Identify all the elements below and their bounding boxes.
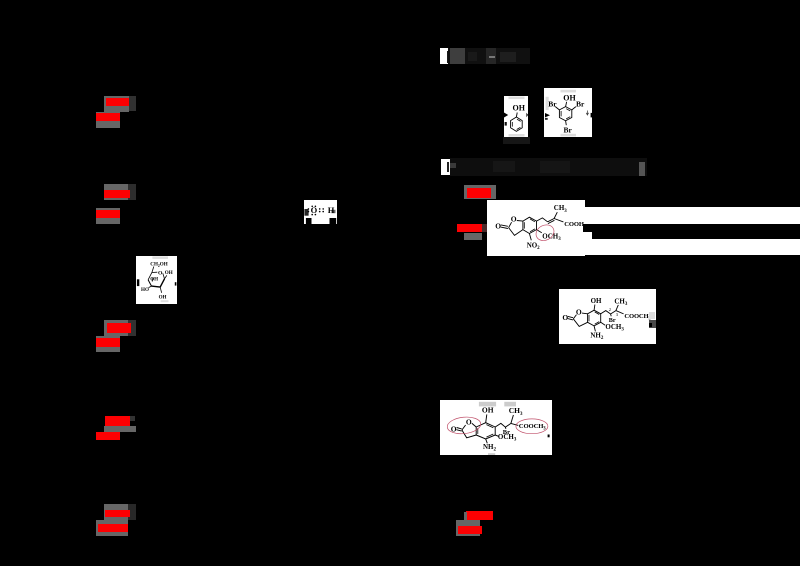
- structure A box: [487, 200, 585, 256]
- answer group 2 highlight line 2: [96, 208, 120, 224]
- heading 1 noise glyphs: [500, 52, 516, 62]
- svg-text:NO2: NO2: [526, 242, 539, 252]
- heading 2 glyph mark on white square: [447, 162, 450, 172]
- white band A: [585, 207, 800, 224]
- answer group 4 red text line 2: [96, 432, 120, 440]
- bottom answer highlight line 2: [456, 520, 480, 536]
- svg-text:3: 3: [616, 312, 619, 317]
- answer group 1 dark side block: [129, 96, 137, 111]
- red ellipse around OCH3: [533, 222, 556, 244]
- small black mark at right edge: [548, 434, 550, 437]
- question red text 1: [467, 188, 491, 198]
- svg-text:COOCH3: COOCH3: [519, 422, 547, 430]
- svg-text:COOH: COOH: [564, 221, 584, 228]
- svg-text:CH3: CH3: [553, 204, 566, 214]
- hydroxide Lewis text: [304, 200, 337, 225]
- svg-text:CH3: CH3: [615, 297, 628, 307]
- svg-text:OH: OH: [591, 297, 602, 305]
- svg-text:O: O: [563, 313, 569, 322]
- heading 2 gray square: [639, 162, 645, 176]
- answer group 2 red text line 2: [96, 210, 120, 218]
- answer group 2 red text line 1: [104, 190, 130, 198]
- heading 2 noise glyph 2: [540, 161, 570, 173]
- answer group 2 highlight line 1: [104, 184, 128, 200]
- answer group 3 red text line 2: [96, 338, 120, 347]
- structure B right dark square: [649, 320, 656, 327]
- svg-text:OCH3: OCH3: [542, 233, 561, 243]
- svg-text:OH: OH: [158, 295, 166, 301]
- svg-text:CH3: CH3: [509, 406, 523, 417]
- answer group 1 highlight line 1: [104, 96, 129, 112]
- phenol structure: [504, 96, 528, 137]
- svg-text:OH: OH: [482, 405, 494, 414]
- svg-text:O: O: [157, 271, 162, 277]
- svg-text:Br: Br: [563, 125, 572, 134]
- bottom answer red line 2: [458, 526, 482, 535]
- svg-text:Br: Br: [576, 99, 585, 108]
- svg-text:O: O: [510, 215, 516, 224]
- svg-text:O: O: [495, 222, 501, 231]
- svg-text:OCH3: OCH3: [606, 323, 625, 333]
- heading 1 noise glyph 2: [468, 52, 477, 61]
- NO2 bond: [529, 234, 531, 241]
- answer group 4 highlight strip: [104, 426, 136, 432]
- svg-text:OH: OH: [563, 93, 576, 102]
- side chain: [536, 218, 547, 222]
- answer group 1 red text line 2: [96, 113, 120, 121]
- structure B drawing: [559, 289, 656, 344]
- answer group 3 highlight line 2: [96, 336, 120, 352]
- svg-text:OH: OH: [164, 271, 172, 277]
- tribromophenol box: [544, 88, 593, 137]
- answer group 5 red text line 2: [98, 524, 128, 532]
- heading 1 dash: [489, 56, 495, 58]
- heading 2 white square: [441, 159, 450, 176]
- heading 1 gray block 2: [486, 48, 496, 64]
- red ellipse around lactone: [446, 415, 481, 435]
- red ellipse around COOCH3: [516, 418, 548, 433]
- lactone C=O double bond: [500, 225, 507, 229]
- benzene ring: [522, 217, 536, 233]
- svg-text:NH2: NH2: [483, 442, 496, 452]
- answer group 4 dark nib: [130, 416, 136, 421]
- structure B right gray square: [649, 312, 655, 318]
- svg-text:2: 2: [609, 307, 611, 312]
- phenol box: [504, 96, 528, 137]
- svg-text:O: O: [576, 307, 582, 316]
- box A left edge maroon mark: [487, 235, 489, 242]
- white band B tab: [585, 232, 592, 256]
- heading 1 dark band: [448, 48, 530, 64]
- answer group 5 highlight line 2: [96, 520, 129, 536]
- structure C box: [440, 400, 552, 455]
- svg-text:OCH3: OCH3: [498, 432, 517, 442]
- question red text 2: [457, 224, 483, 233]
- structure C drawing: [440, 400, 550, 455]
- answer group 5 highlight line 1: [104, 504, 128, 520]
- bottom answer gray sliver: [464, 512, 467, 520]
- white band B: [592, 239, 800, 255]
- heading 1 glyph mark on white square: [447, 51, 449, 63]
- svg-text:HO: HO: [141, 288, 149, 294]
- heading 1 gray block: [450, 48, 465, 64]
- svg-text:OH: OH: [150, 277, 158, 283]
- answer group 3 highlight line 1: [104, 320, 128, 336]
- phenol arrow remnant below: [503, 137, 530, 144]
- heading 2 noise glyphs: [493, 161, 515, 172]
- answer group 3 red text line 1: [107, 323, 131, 333]
- heading 1 white square: [440, 48, 448, 64]
- svg-text:NH2: NH2: [591, 331, 604, 341]
- svg-text:CH2OH: CH2OH: [150, 262, 167, 268]
- question red-gray fragment: [482, 224, 488, 232]
- hydroxide box: [304, 200, 337, 225]
- question red underline gray: [464, 233, 482, 240]
- structure B box: [559, 289, 656, 344]
- structure A drawing: [487, 200, 585, 256]
- answer group 3 dark side block: [128, 320, 136, 336]
- svg-text:OH: OH: [512, 103, 525, 112]
- svg-text:O: O: [466, 417, 472, 426]
- bottom answer red line 1: [466, 511, 493, 519]
- OCH3 bond: [536, 230, 541, 233]
- glucose structure: [136, 256, 177, 303]
- heading 2 dark band: [450, 158, 647, 177]
- answer group 1 highlight line 2: [96, 112, 121, 129]
- answer group 1 red text line 1: [106, 98, 130, 106]
- structure B right black mark: [649, 323, 652, 327]
- tribromophenol structure: [544, 88, 593, 137]
- question red highlight 1: [464, 185, 496, 200]
- lactone ring: [508, 222, 511, 227]
- glucose box: [136, 256, 177, 303]
- answer group 5 red text line 1: [105, 510, 129, 518]
- black notch over box edge: [583, 224, 585, 232]
- answer group 2 dark side block: [128, 184, 136, 200]
- heading 2 small gray block: [450, 163, 456, 168]
- answer group 5 dark side block: [128, 504, 136, 520]
- answer group 4 red text line 1: [105, 416, 130, 426]
